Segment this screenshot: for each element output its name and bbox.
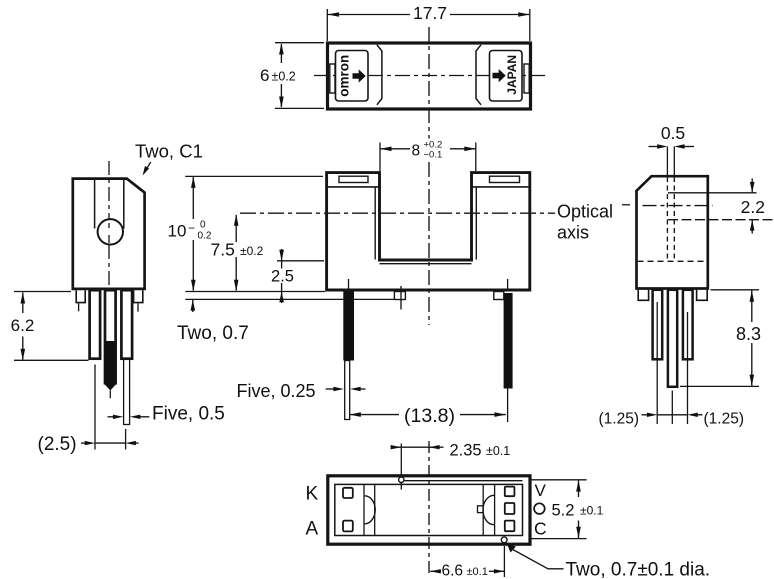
svg-text:0: 0 <box>200 220 206 231</box>
dimension 8 line and arrows <box>380 147 476 152</box>
front view middle tab pin line <box>400 286 402 310</box>
left side view right tab stub <box>137 304 139 312</box>
svg-text:0.5: 0.5 <box>661 123 685 143</box>
top view japan label box <box>490 51 523 102</box>
bottom view A pad <box>343 521 353 532</box>
right side view slit extension lines <box>667 147 674 176</box>
svg-text:(2.5): (2.5) <box>38 434 77 455</box>
bottom view C pad <box>505 521 515 532</box>
dimension 6.2 text <box>11 316 35 335</box>
dimension (2.5) extension lines <box>95 365 126 450</box>
top view right parting trapezoid <box>476 45 481 105</box>
dimension 2.35 line and arrows <box>391 445 444 449</box>
right side view left tab <box>638 290 648 301</box>
svg-text:A: A <box>306 519 319 540</box>
bottom view left column lines <box>364 484 375 535</box>
bottom view bottom hole <box>501 537 507 543</box>
top view omron text <box>337 55 352 97</box>
left side view pin 2 (middle long) <box>104 290 117 398</box>
dimension 8 extension lines <box>380 143 476 172</box>
front view slot right inner line <box>475 187 477 260</box>
svg-text:8.3: 8.3 <box>736 324 761 344</box>
svg-text:C: C <box>534 518 547 538</box>
front view right pin <box>504 293 513 389</box>
svg-text:2.5: 2.5 <box>271 268 294 286</box>
dimension (13.8) line and arrows <box>349 412 506 417</box>
top view left arrow mark <box>353 69 366 82</box>
svg-text:−: − <box>188 221 195 235</box>
dimension 6 +-0.2 text <box>260 66 296 85</box>
right side view pin A <box>653 290 663 360</box>
front view right pin lower extension <box>507 389 509 423</box>
top view right arrow mark <box>493 69 506 82</box>
svg-text:±0.2: ±0.2 <box>272 70 296 84</box>
svg-text:±0.1: ±0.1 <box>467 566 488 578</box>
top view left latch <box>330 64 335 93</box>
front view left pin upper extension <box>348 279 350 289</box>
dimension 2.5 text <box>271 268 294 286</box>
label Two, C1 <box>135 141 203 162</box>
dimension 17.7 extension lines <box>327 9 530 41</box>
left side view lens circle <box>98 219 123 244</box>
left side view left tab <box>76 290 85 302</box>
bottom view right column lines <box>483 484 494 535</box>
front view left pin <box>343 291 354 361</box>
dimension 5.2 line and arrows <box>576 480 581 538</box>
front view body outline <box>327 173 530 290</box>
front view left tower lens line <box>327 186 380 188</box>
dimension 5.2 +-0.1 text <box>552 501 604 519</box>
svg-text:V: V <box>535 481 547 500</box>
svg-text:2.2: 2.2 <box>741 197 765 217</box>
dimension 10 line and arrows <box>191 176 196 291</box>
left side view right tab <box>134 290 143 302</box>
dimension 8.3 line and arrows <box>750 290 755 386</box>
label Optical axis <box>557 202 613 243</box>
dimension 2.35 +-0.1 text <box>450 441 511 459</box>
dimension (2.5) text <box>38 434 77 455</box>
right side view window top line <box>668 192 757 194</box>
dimension 8.3 text <box>736 324 761 344</box>
dimension 6.2 extension lines <box>14 292 89 361</box>
dimension Five 0.25 leader arrows <box>326 387 366 391</box>
dimension 6.6 line and arrows <box>430 569 504 573</box>
dimension (13.8) text <box>404 405 455 427</box>
svg-text:omron: omron <box>337 55 352 97</box>
dimension 17.7 text <box>413 3 447 23</box>
front view left thin pin <box>345 361 350 420</box>
label Five, 0.5 <box>152 404 225 425</box>
left side view slot edge lines <box>95 180 124 229</box>
dimension 0.5 text <box>661 123 685 143</box>
right side view body outline with chamfer <box>637 176 708 288</box>
right side view pin B (middle long) <box>668 290 677 387</box>
bottom view inner top line <box>405 480 523 482</box>
svg-text:Five, 0.25: Five, 0.25 <box>237 381 316 401</box>
label C <box>534 518 547 538</box>
svg-text:Two, 0.7±0.1 dia.: Two, 0.7±0.1 dia. <box>566 559 711 579</box>
left side view body outline with chamfer <box>73 179 145 289</box>
svg-text:Two, C1: Two, C1 <box>135 141 203 162</box>
svg-text:6.6: 6.6 <box>442 563 464 579</box>
label Two, 0.7 <box>177 323 249 344</box>
svg-text:(1.25): (1.25) <box>704 411 745 428</box>
front view right tower window <box>490 176 520 182</box>
label Two, 0.7+-0.1 dia. <box>566 559 711 579</box>
optical axis continuation dash <box>622 204 630 206</box>
left side view center line <box>108 161 110 222</box>
svg-text:7.5: 7.5 <box>211 240 235 260</box>
dimension (1.25) line and arrows <box>642 413 703 417</box>
front view right tower lens line <box>472 186 530 188</box>
bottom view inner rect <box>335 484 523 535</box>
top view body outline <box>328 43 531 109</box>
top view japan text <box>505 55 519 95</box>
bottom view left D lens arc <box>365 496 376 524</box>
dimension 5.2 extension lines <box>532 480 587 539</box>
front view right pin upper extension <box>507 279 509 289</box>
dimension 8 +0.2 -0.1 text <box>410 139 450 161</box>
dimension (1.25) extension lines <box>657 302 687 424</box>
dimension 0.5 line and arrows <box>649 144 695 148</box>
bottom view middle pad <box>505 503 515 514</box>
dimension 2.35 extension line <box>400 444 402 475</box>
dimension 7.5 line and arrows <box>234 214 239 291</box>
right side view pin C <box>683 290 693 360</box>
dimension 10 -0/-0.2 text <box>168 220 212 242</box>
dimension 8.3 extension lines <box>680 290 759 387</box>
svg-text:±0.1: ±0.1 <box>580 504 604 518</box>
front view middle tab <box>394 292 405 300</box>
dimension 6.6 extension line <box>503 546 505 577</box>
dimension (2.5) line and arrows <box>81 441 139 445</box>
front view right boss tab <box>494 292 504 300</box>
front view left tower window <box>339 176 368 182</box>
bottom view V pad <box>505 487 515 497</box>
svg-text:8: 8 <box>412 143 421 160</box>
bottom view outer body <box>328 476 530 544</box>
dimension 6 +-0.2 line and arrows <box>279 43 284 108</box>
dimension 17.7 line and arrows <box>328 12 530 17</box>
right side view right tab <box>697 290 708 301</box>
left side view left tab stub <box>78 304 80 312</box>
svg-text:axis: axis <box>557 223 589 243</box>
svg-text:17.7: 17.7 <box>413 3 447 23</box>
svg-text:±0.1: ±0.1 <box>486 444 510 458</box>
dimension 6 +-0.2 extension lines <box>275 43 324 109</box>
dimension Two 0.7 arrows <box>191 300 196 312</box>
label O pin circle <box>534 503 545 514</box>
dimension (1.25) right text <box>704 411 745 428</box>
top view omron label box <box>336 51 369 102</box>
bottom view top hole <box>399 477 404 482</box>
dimension Five 0.5 leader arrows <box>108 415 150 419</box>
svg-text:Two, 0.7: Two, 0.7 <box>177 323 249 344</box>
top view horizontal center line <box>314 75 545 77</box>
svg-text:K: K <box>306 484 319 505</box>
label V <box>535 481 547 500</box>
bottom view K pad <box>343 488 353 498</box>
left side view center line lower <box>108 245 110 286</box>
label K <box>306 484 319 505</box>
left side view pin 3 <box>121 290 132 359</box>
front view boss upper extension line <box>185 291 325 293</box>
right side view window bottom line <box>668 219 774 221</box>
dimension 6.2 line and arrows <box>21 292 26 360</box>
svg-text:Optical: Optical <box>557 202 613 222</box>
svg-text:2.35: 2.35 <box>450 441 482 459</box>
svg-text:±0.2: ±0.2 <box>240 244 264 258</box>
dimension 2.2 line and arrows <box>750 179 755 234</box>
left side view pin 1 <box>90 290 101 359</box>
dimension 6.6 +-0.1 text <box>442 563 488 579</box>
top view left parting trapezoid <box>377 45 382 105</box>
dimension 7.5 +-0.2 text <box>211 240 264 260</box>
svg-text:10: 10 <box>168 222 187 241</box>
top view right latch <box>524 64 529 93</box>
dimension 2.2 text <box>741 197 765 217</box>
svg-text:JAPAN: JAPAN <box>505 55 519 95</box>
dimension 2.5 extension line at slot bottom <box>277 260 324 262</box>
right side view hidden slit dashed lines <box>667 177 674 261</box>
bottom view top hole extension into cavity <box>400 483 402 490</box>
leader Two 0.7 dia arrow <box>507 544 564 569</box>
label A <box>306 519 319 540</box>
front view boss lower line <box>185 298 394 300</box>
right side view optical axis chain <box>643 205 714 207</box>
dimension 2.5 line and arrows <box>279 249 284 303</box>
svg-text:(1.25): (1.25) <box>599 411 640 428</box>
svg-text:(13.8): (13.8) <box>404 405 455 427</box>
right side view hidden slot bottom dashed <box>638 260 708 262</box>
svg-text:Five, 0.5: Five, 0.5 <box>152 404 225 425</box>
bottom view right D notch <box>478 506 484 513</box>
front view optical axis chain line <box>240 212 555 214</box>
front view slot left inner line <box>374 187 376 260</box>
vertical center line through top and front views <box>428 27 430 325</box>
front view body top extension line <box>185 175 323 177</box>
bottom view center chain line <box>428 441 430 577</box>
leader Two C1 arrow <box>143 162 151 176</box>
bottom view right D lens arc <box>483 495 494 524</box>
dimension (1.25) left text <box>599 411 640 428</box>
svg-text:5.2: 5.2 <box>552 501 575 519</box>
svg-text:6: 6 <box>260 66 269 85</box>
svg-text:6.2: 6.2 <box>11 316 35 335</box>
left side view thin pin <box>124 359 130 425</box>
label Five, 0.25 <box>237 381 316 401</box>
svg-text:−0.1: −0.1 <box>424 149 443 160</box>
front view slot bottom second line <box>380 263 472 265</box>
